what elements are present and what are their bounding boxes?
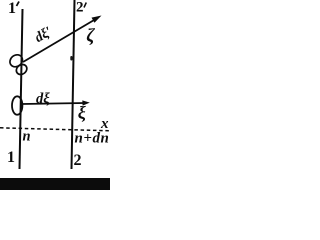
ink speck on wire 2 (70, 56, 72, 61)
svg-text:dξ: dξ (36, 91, 50, 107)
svg-text:n: n (23, 129, 31, 145)
svg-text:2: 2 (74, 152, 82, 169)
arrow d xi (horizontal vector) (22, 103, 86, 104)
dashed x-axis (0, 128, 110, 131)
bottom black bar (0, 178, 110, 190)
svg-text:1: 1 (7, 149, 15, 166)
wire 1-1' (left vertical line) (20, 9, 23, 169)
loop element on wire 1 (lower ellipse) (12, 96, 22, 114)
arrow d xi' (diagonal vector) (23, 18, 98, 62)
svg-text:1: 1 (8, 0, 16, 17)
svg-text:ζ: ζ (86, 26, 95, 46)
svg-text:2: 2 (76, 0, 84, 16)
svg-text:x: x (100, 116, 109, 132)
svg-text:ξ: ξ (78, 103, 86, 124)
loop element on wire 1 (upper, tilted double loop) (8, 52, 29, 76)
svg-text:n+dn: n+dn (75, 131, 110, 147)
wire 2-2' (right vertical line) (72, 0, 75, 169)
